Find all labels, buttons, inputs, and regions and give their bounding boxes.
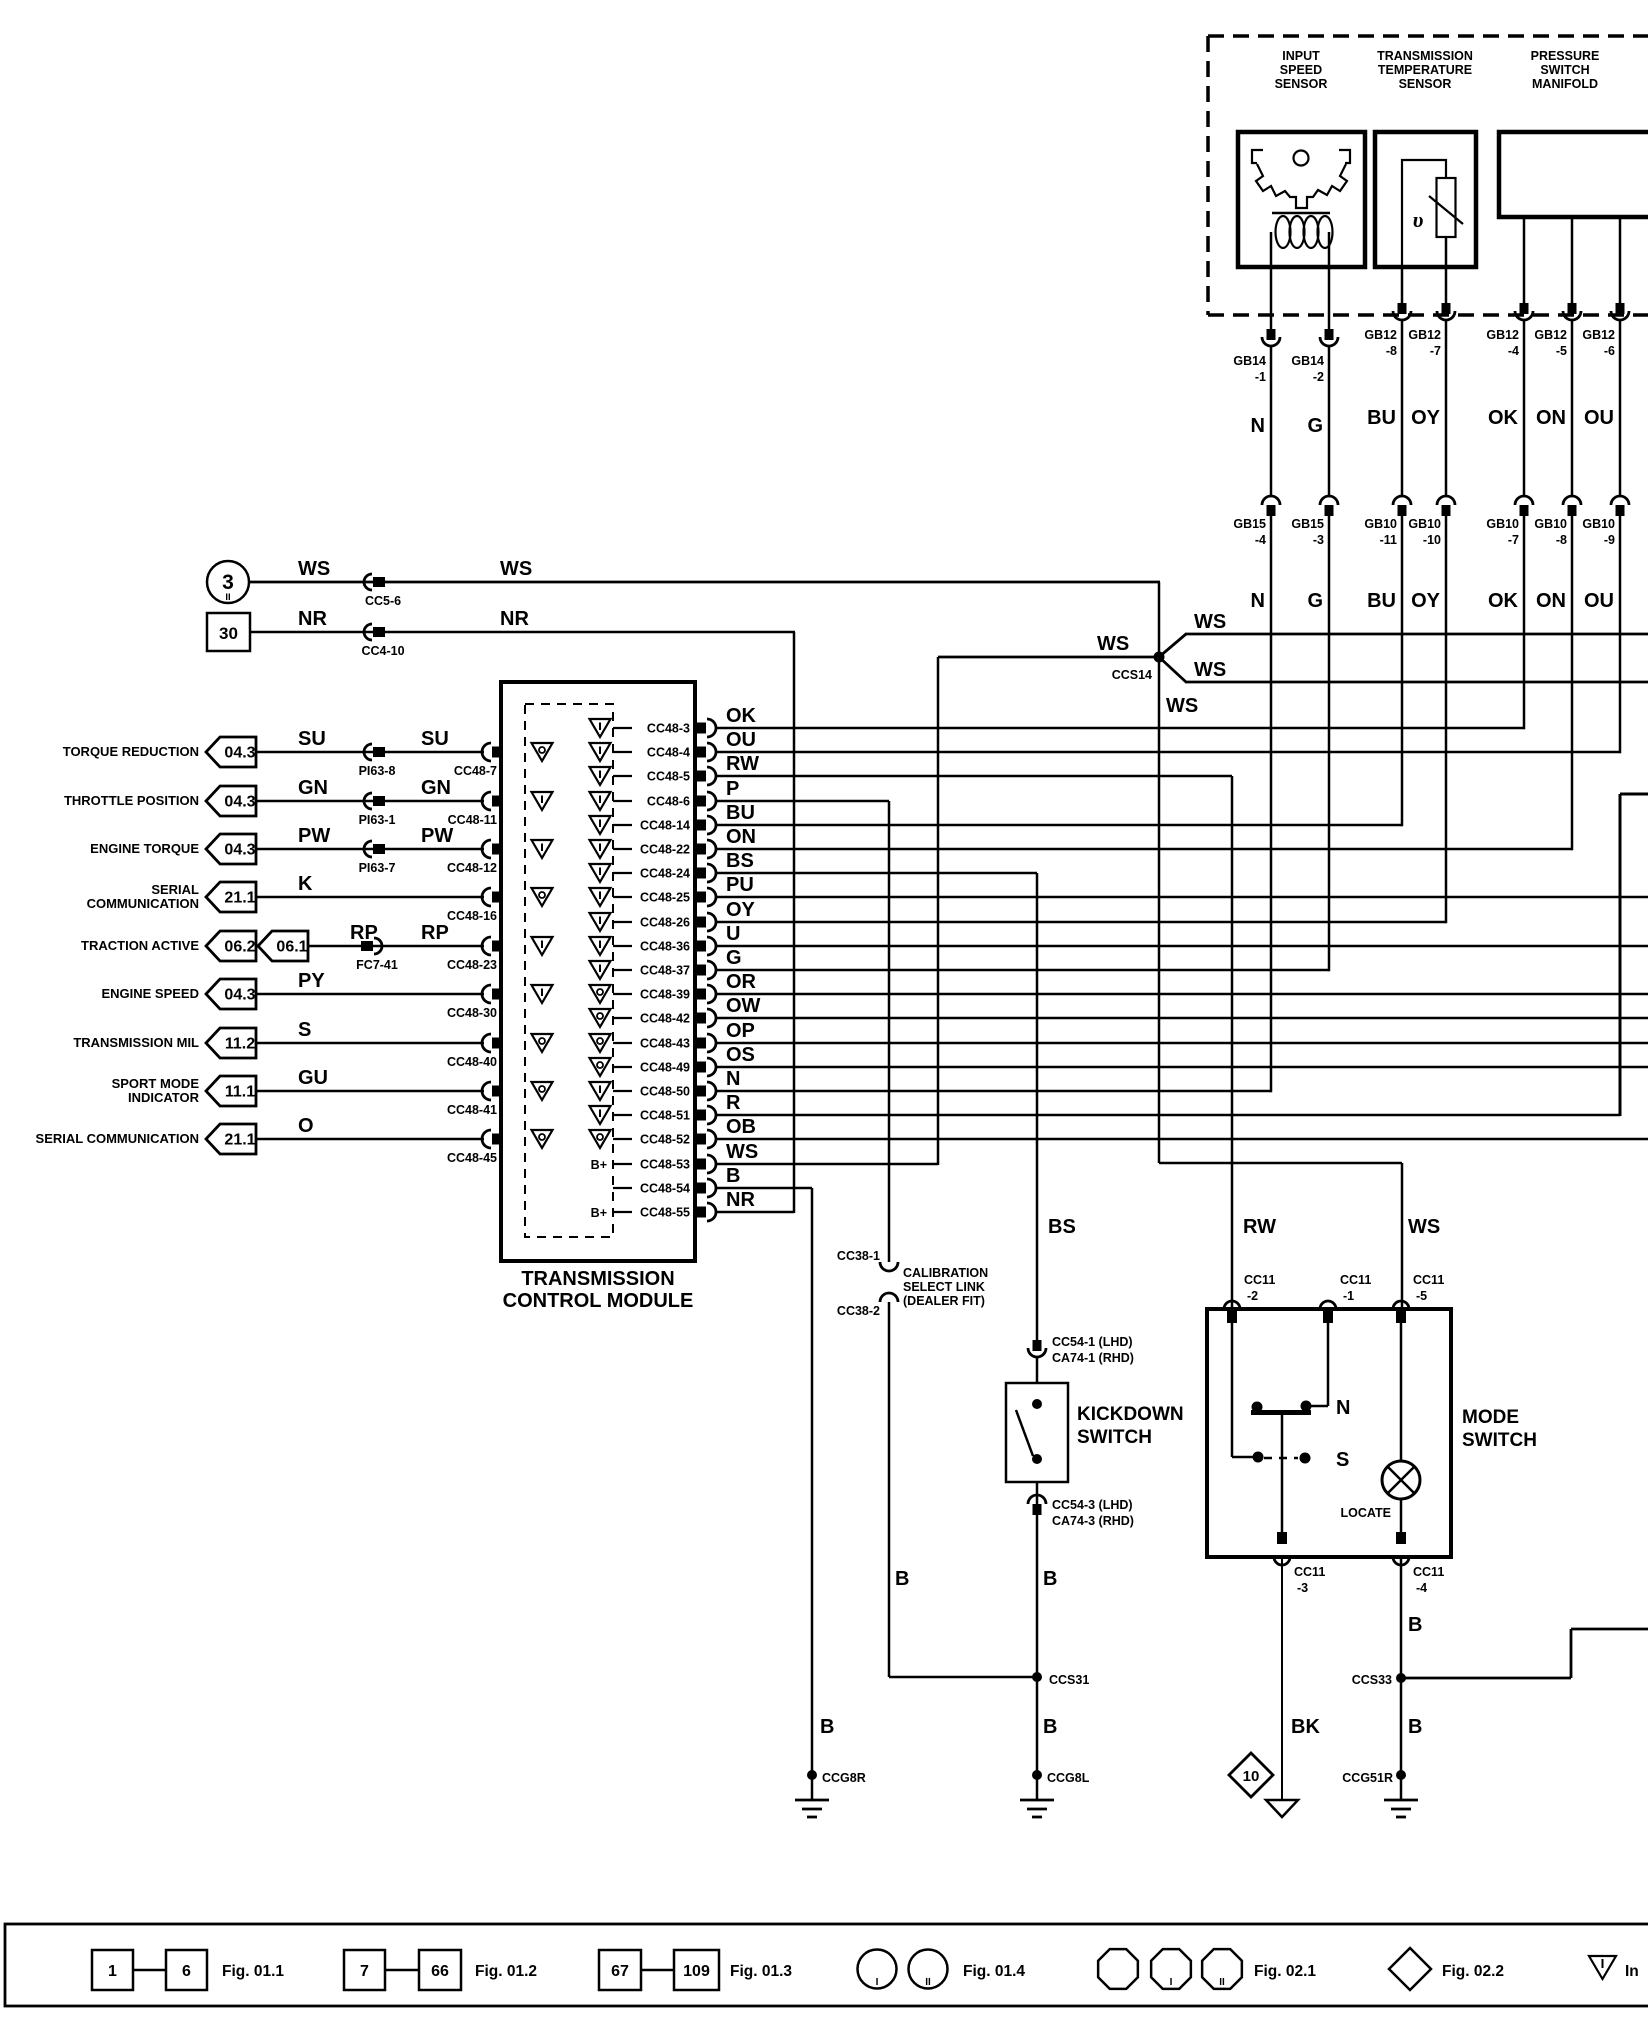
wire NR vertical to CC48-55 — [793, 632, 796, 1213]
svg-text:109: 109 — [683, 1963, 710, 1980]
pin CC48-55 wire NR — [591, 1189, 794, 1221]
mode switch — [1207, 1273, 1537, 1595]
svg-text:CC48-37: CC48-37 — [640, 964, 690, 978]
svg-text:06.1: 06.1 — [276, 939, 307, 956]
svg-text:Fig. 02.2: Fig. 02.2 — [1442, 1963, 1504, 1980]
svg-text:S: S — [1336, 1449, 1349, 1471]
svg-text:RP: RP — [421, 922, 449, 944]
svg-text:CA74-1 (RHD): CA74-1 (RHD) — [1052, 1351, 1134, 1365]
svg-text:RW: RW — [726, 753, 759, 775]
svg-text:B: B — [1043, 1568, 1057, 1590]
svg-text:GB10: GB10 — [1486, 517, 1519, 531]
svg-text:GB10: GB10 — [1408, 517, 1441, 531]
svg-text:B: B — [1408, 1614, 1422, 1636]
wire RW vertical to mode switch CC11-2 — [1232, 776, 1276, 1309]
ground CCG51R — [1342, 1770, 1418, 1817]
wire N from sensor (GB14-1/GB15-4) — [1233, 267, 1280, 1092]
svg-text:Fig. 01.1: Fig. 01.1 — [222, 1963, 284, 1980]
dashed sensor enclosure box — [1208, 36, 1648, 315]
pin CC48-54 wire B — [613, 1165, 812, 1197]
pressure switch manifold — [1499, 49, 1648, 217]
pin CC48-25 wire PU — [532, 874, 1648, 906]
wire WS riser from CC48-53 — [937, 657, 940, 1165]
svg-text:-8: -8 — [1556, 533, 1567, 547]
svg-text:-7: -7 — [1508, 533, 1519, 547]
pin CC48-6 wire P — [532, 778, 890, 810]
svg-text:CC48-43: CC48-43 — [640, 1037, 690, 1051]
pin CC48-53 wire WS — [591, 1141, 938, 1173]
svg-text:CC54-3 (LHD): CC54-3 (LHD) — [1052, 1498, 1133, 1512]
svg-text:NR: NR — [726, 1189, 755, 1211]
splice CCS33 with link to right edge — [1352, 1629, 1648, 1687]
svg-text:-2: -2 — [1247, 1289, 1258, 1303]
svg-text:BK: BK — [1291, 1716, 1320, 1738]
svg-text:-6: -6 — [1604, 344, 1615, 358]
svg-text:CC48-5: CC48-5 — [647, 770, 690, 784]
svg-text:KICKDOWN: KICKDOWN — [1077, 1404, 1184, 1425]
svg-text:CC48-25: CC48-25 — [640, 891, 690, 905]
svg-text:-10: -10 — [1423, 533, 1441, 547]
svg-text:OK: OK — [726, 705, 757, 727]
svg-text:PI63-1: PI63-1 — [359, 813, 396, 827]
legend item Fig. 02.2 — [1389, 1948, 1504, 1990]
svg-text:WS: WS — [1194, 659, 1226, 681]
pin CC48-26 wire OY — [590, 899, 1447, 931]
svg-text:RP: RP — [350, 922, 378, 944]
svg-text:I: I — [876, 1977, 879, 1988]
svg-text:K: K — [298, 873, 313, 895]
svg-text:ON: ON — [726, 826, 756, 848]
pin CC48-5 wire RW — [590, 753, 1233, 785]
svg-text:CC48-7: CC48-7 — [454, 764, 497, 778]
svg-text:CC48-16: CC48-16 — [447, 909, 497, 923]
input SERIAL COMMUNICATION (CC48-16) — [87, 873, 501, 923]
svg-text:CC11: CC11 — [1340, 1273, 1371, 1287]
svg-text:BU: BU — [1367, 407, 1396, 429]
svg-text:CC48-4: CC48-4 — [647, 746, 690, 760]
input ENGINE TORQUE (CC48-12) — [90, 825, 501, 875]
svg-text:CC48-22: CC48-22 — [640, 843, 690, 857]
svg-text:O: O — [298, 1115, 314, 1137]
svg-text:CCG8L: CCG8L — [1047, 1771, 1090, 1785]
svg-text:CC48-51: CC48-51 — [640, 1109, 690, 1123]
pin CC48-22 wire ON — [532, 826, 1573, 858]
svg-text:21.1: 21.1 — [224, 890, 255, 907]
svg-text:OU: OU — [1584, 590, 1614, 612]
svg-text:TRANSMISSION: TRANSMISSION — [521, 1268, 674, 1290]
svg-text:B: B — [1408, 1716, 1422, 1738]
svg-text:CC48-49: CC48-49 — [640, 1061, 690, 1075]
svg-text:CCG8R: CCG8R — [822, 1771, 866, 1785]
pin CC48-50 wire N — [532, 1068, 1272, 1100]
svg-text:21.1: 21.1 — [224, 1132, 255, 1149]
svg-text:CC48-42: CC48-42 — [640, 1012, 690, 1026]
svg-text:GB12: GB12 — [1582, 328, 1615, 342]
svg-text:CC48-52: CC48-52 — [640, 1133, 690, 1147]
svg-text:WS: WS — [298, 558, 330, 580]
pin CC48-39 wire OR — [532, 971, 1648, 1003]
svg-text:S: S — [298, 1019, 311, 1041]
wire BU from sensor (GB12-8/GB10-11) — [1364, 267, 1411, 826]
svg-text:COMMUNICATION: COMMUNICATION — [87, 896, 199, 911]
svg-text:B+: B+ — [591, 1206, 607, 1220]
svg-text:06.2: 06.2 — [224, 939, 255, 956]
pin CC48-36 wire U — [532, 923, 1648, 955]
svg-text:CC11: CC11 — [1413, 1565, 1444, 1579]
svg-text:PI63-7: PI63-7 — [359, 861, 396, 875]
pin CC48-24 wire BS — [590, 850, 1038, 882]
svg-text:OU: OU — [1584, 407, 1614, 429]
svg-text:OP: OP — [726, 1020, 755, 1042]
svg-text:SWITCH: SWITCH — [1462, 1430, 1537, 1451]
transmission control module U1 — [501, 682, 695, 1312]
svg-text:-8: -8 — [1386, 344, 1397, 358]
svg-text:WS: WS — [500, 558, 532, 580]
pin CC48-49 wire OS — [590, 1044, 1648, 1076]
svg-text:SU: SU — [298, 728, 326, 750]
svg-text:CCG51R: CCG51R — [1342, 1771, 1393, 1785]
svg-text:ON: ON — [1536, 407, 1566, 429]
legend item Fig. 01.1 — [92, 1950, 284, 1990]
svg-text:CC48-26: CC48-26 — [640, 916, 690, 930]
svg-text:WS: WS — [1166, 695, 1198, 717]
svg-text:CC48-55: CC48-55 — [640, 1206, 690, 1220]
svg-text:WS: WS — [726, 1141, 758, 1163]
svg-text:CC48-6: CC48-6 — [647, 795, 690, 809]
wire G from sensor (GB14-2/GB15-3) — [1291, 267, 1338, 971]
svg-text:THROTTLE POSITION: THROTTLE POSITION — [64, 793, 199, 808]
svg-text:10: 10 — [1243, 1768, 1260, 1785]
svg-text:67: 67 — [611, 1963, 629, 1980]
pin CC48-14 wire BU — [590, 802, 1403, 834]
splice CCS31 — [1032, 1672, 1089, 1738]
connector CC5-6 on WS wire — [298, 558, 532, 608]
legend item triangle reference — [1589, 1956, 1639, 1980]
svg-text:OB: OB — [726, 1116, 756, 1138]
svg-text:CC48-11: CC48-11 — [448, 813, 497, 827]
wire OK from sensor (GB12-4/GB10-7) — [1486, 217, 1533, 729]
svg-text:PW: PW — [421, 825, 453, 847]
svg-text:-5: -5 — [1416, 1289, 1427, 1303]
svg-text:3: 3 — [222, 571, 234, 594]
svg-text:GN: GN — [421, 777, 451, 799]
svg-text:CC11: CC11 — [1244, 1273, 1275, 1287]
legend item Fig. 02.1 — [1098, 1949, 1316, 1989]
svg-text:PI63-8: PI63-8 — [359, 764, 396, 778]
svg-text:SERIAL: SERIAL — [151, 882, 199, 897]
svg-text:66: 66 — [431, 1963, 449, 1980]
svg-text:PU: PU — [726, 874, 754, 896]
svg-text:OR: OR — [726, 971, 757, 993]
svg-text:CA74-3 (RHD): CA74-3 (RHD) — [1052, 1514, 1134, 1528]
input SPORT MODE INDICATOR (CC48-41) — [112, 1067, 501, 1117]
svg-text:-3: -3 — [1313, 533, 1324, 547]
svg-text:INDICATOR: INDICATOR — [128, 1090, 200, 1105]
legend item Fig. 01.3 — [599, 1950, 792, 1990]
svg-text:-5: -5 — [1556, 344, 1567, 358]
transmission temperature sensor — [1375, 49, 1476, 267]
pin CC48-52 wire OB — [532, 1116, 1648, 1148]
input speed sensor — [1238, 49, 1365, 267]
svg-text:B: B — [895, 1568, 909, 1590]
svg-text:TRANSMISSION MIL: TRANSMISSION MIL — [73, 1035, 199, 1050]
svg-text:CALIBRATION: CALIBRATION — [903, 1266, 988, 1280]
svg-text:OK: OK — [1488, 590, 1519, 612]
connector CC54-3/CA74-3 — [1028, 1482, 1134, 1776]
svg-text:CC48-24: CC48-24 — [640, 867, 690, 881]
svg-text:GB12: GB12 — [1486, 328, 1519, 342]
svg-text:OY: OY — [1411, 590, 1441, 612]
svg-text:CCS14: CCS14 — [1112, 668, 1152, 682]
svg-text:7: 7 — [360, 1963, 369, 1980]
svg-text:30: 30 — [219, 624, 238, 643]
svg-text:GU: GU — [298, 1067, 328, 1089]
wire B from mode switch CC11-4 — [1401, 1557, 1422, 1776]
svg-text:B+: B+ — [591, 1158, 607, 1172]
wire B vertical to ground CCG8R — [812, 1188, 834, 1776]
svg-text:WS: WS — [1097, 633, 1129, 655]
svg-text:GB10: GB10 — [1582, 517, 1615, 531]
svg-text:B: B — [820, 1716, 834, 1738]
svg-text:B: B — [726, 1165, 740, 1187]
input THROTTLE POSITION (CC48-11) — [64, 777, 501, 827]
svg-text:SWITCH: SWITCH — [1540, 63, 1589, 77]
svg-text:ENGINE SPEED: ENGINE SPEED — [101, 986, 199, 1001]
wire ON from sensor (GB12-5/GB10-8) — [1534, 217, 1581, 850]
svg-text:SU: SU — [421, 728, 449, 750]
svg-text:CC48-3: CC48-3 — [647, 722, 690, 736]
pin CC48-43 wire OP — [532, 1020, 1648, 1052]
svg-text:-3: -3 — [1297, 1581, 1308, 1595]
svg-text:LOCATE: LOCATE — [1341, 1506, 1391, 1520]
wire OY from sensor (GB12-7/GB10-10) — [1408, 267, 1455, 923]
svg-text:II: II — [1219, 1977, 1225, 1988]
connector CC4-10 on NR wire — [298, 608, 529, 658]
wire R bridge to right edge — [1620, 794, 1648, 1116]
svg-text:CC48-36: CC48-36 — [640, 940, 690, 954]
input TORQUE REDUCTION (CC48-7) — [63, 728, 501, 778]
svg-text:TORQUE REDUCTION: TORQUE REDUCTION — [63, 744, 199, 759]
svg-text:CC48-50: CC48-50 — [640, 1085, 690, 1099]
svg-text:CC4-10: CC4-10 — [361, 644, 404, 658]
svg-text:CC54-1 (LHD): CC54-1 (LHD) — [1052, 1335, 1133, 1349]
svg-text:PRESSURE: PRESSURE — [1531, 49, 1600, 63]
svg-text:NR: NR — [500, 608, 529, 630]
svg-text:OY: OY — [1411, 407, 1441, 429]
connector CC54-1/CA74-1 — [1028, 1335, 1134, 1383]
svg-text:G: G — [1307, 415, 1323, 437]
svg-text:OY: OY — [726, 899, 756, 921]
svg-text:N: N — [1336, 1397, 1350, 1419]
svg-text:GN: GN — [298, 777, 328, 799]
off-page reference diamond 10 — [1229, 1753, 1273, 1797]
svg-text:N: N — [1251, 415, 1265, 437]
svg-text:11.1: 11.1 — [225, 1084, 255, 1101]
svg-text:CCS33: CCS33 — [1352, 1673, 1392, 1687]
splice CCS14 (WS distribution) — [938, 582, 1648, 1309]
svg-text:-4: -4 — [1416, 1581, 1427, 1595]
svg-text:Fig. 01.4: Fig. 01.4 — [963, 1963, 1025, 1980]
svg-text:GB15: GB15 — [1291, 517, 1324, 531]
wire OU from sensor (GB12-6/GB10-9) — [1582, 217, 1629, 753]
svg-text:PY: PY — [298, 970, 325, 992]
svg-text:11.2: 11.2 — [225, 1036, 255, 1053]
svg-text:CC48-40: CC48-40 — [447, 1055, 497, 1069]
svg-text:GB12: GB12 — [1408, 328, 1441, 342]
svg-text:P: P — [726, 778, 739, 800]
pin CC48-3 wire OK — [590, 705, 1525, 737]
svg-text:GB12: GB12 — [1364, 328, 1397, 342]
svg-text:GB10: GB10 — [1364, 517, 1397, 531]
wire P vertical to calibration link — [888, 801, 891, 1262]
legend item Fig. 01.4 — [858, 1950, 1026, 1989]
svg-text:CC48-39: CC48-39 — [640, 988, 690, 1002]
svg-text:Fig. 01.2: Fig. 01.2 — [475, 1963, 537, 1980]
svg-text:SWITCH: SWITCH — [1077, 1427, 1152, 1448]
svg-text:CC48-53: CC48-53 — [640, 1158, 690, 1172]
svg-text:OK: OK — [1488, 407, 1519, 429]
svg-text:04.3: 04.3 — [224, 745, 255, 762]
svg-text:CC38-1: CC38-1 — [837, 1249, 880, 1263]
svg-text:-7: -7 — [1430, 344, 1441, 358]
svg-text:CC48-45: CC48-45 — [447, 1151, 497, 1165]
input ENGINE SPEED (CC48-30) — [101, 970, 501, 1020]
svg-text:U: U — [726, 923, 740, 945]
svg-text:1: 1 — [108, 1963, 117, 1980]
svg-text:GB14: GB14 — [1291, 354, 1324, 368]
pin CC48-37 wire G — [590, 947, 1330, 979]
svg-text:TRACTION ACTIVE: TRACTION ACTIVE — [81, 938, 199, 953]
svg-text:PW: PW — [298, 825, 330, 847]
svg-text:OU: OU — [726, 729, 756, 751]
input TRACTION ACTIVE (CC48-23) — [81, 922, 501, 972]
legend item Fig. 01.2 — [344, 1950, 537, 1990]
svg-text:ENGINE TORQUE: ENGINE TORQUE — [90, 841, 199, 856]
svg-text:CC11: CC11 — [1413, 1273, 1444, 1287]
svg-text:04.3: 04.3 — [224, 842, 255, 859]
svg-text:WS: WS — [1408, 1216, 1440, 1238]
svg-text:N: N — [726, 1068, 740, 1090]
svg-text:INPUT: INPUT — [1282, 49, 1320, 63]
svg-text:B: B — [1043, 1716, 1057, 1738]
node 30 (box) with NR feed wire — [207, 613, 795, 651]
pin CC48-4 wire OU — [532, 729, 1621, 761]
svg-text:GB10: GB10 — [1534, 517, 1567, 531]
legend bar frame — [5, 1924, 1648, 2006]
svg-text:In: In — [1625, 1963, 1639, 1980]
svg-text:-4: -4 — [1255, 533, 1266, 547]
svg-text:SPORT MODE: SPORT MODE — [112, 1076, 200, 1091]
svg-text:BU: BU — [1367, 590, 1396, 612]
svg-text:MANIFOLD: MANIFOLD — [1532, 77, 1598, 91]
svg-text:WS: WS — [1194, 611, 1226, 633]
svg-text:FC7-41: FC7-41 — [356, 958, 398, 972]
ground CCG8L — [1020, 1770, 1090, 1817]
svg-text:G: G — [1307, 590, 1323, 612]
svg-text:SPEED: SPEED — [1280, 63, 1322, 77]
svg-text:GB12: GB12 — [1534, 328, 1567, 342]
input SERIAL COMMUNICATION (CC48-45) — [36, 1115, 501, 1165]
svg-text:-2: -2 — [1313, 370, 1324, 384]
svg-text:BS: BS — [1048, 1216, 1076, 1238]
svg-text:OS: OS — [726, 1044, 755, 1066]
svg-text:CC48-41: CC48-41 — [447, 1103, 497, 1117]
svg-text:-4: -4 — [1508, 344, 1519, 358]
svg-text:GB15: GB15 — [1233, 517, 1266, 531]
svg-text:-9: -9 — [1604, 533, 1615, 547]
svg-text:II: II — [225, 592, 230, 603]
svg-text:BU: BU — [726, 802, 755, 824]
svg-text:SELECT LINK: SELECT LINK — [903, 1280, 985, 1294]
svg-text:NR: NR — [298, 608, 327, 630]
svg-text:Fig. 01.3: Fig. 01.3 — [730, 1963, 792, 1980]
svg-text:04.3: 04.3 — [224, 987, 255, 1004]
svg-text:SENSOR: SENSOR — [1275, 77, 1328, 91]
svg-text:BS: BS — [726, 850, 754, 872]
svg-text:G: G — [726, 947, 742, 969]
wire BK with arrow to off-page 10 — [1266, 1557, 1320, 1817]
svg-text:N: N — [1251, 590, 1265, 612]
svg-text:SENSOR: SENSOR — [1399, 77, 1452, 91]
input TRANSMISSION MIL (CC48-40) — [73, 1019, 501, 1069]
pin CC48-51 wire R — [590, 1092, 1621, 1124]
pin CC48-42 wire OW — [590, 995, 1648, 1027]
svg-text:SERIAL COMMUNICATION: SERIAL COMMUNICATION — [36, 1131, 199, 1146]
svg-text:-1: -1 — [1343, 1289, 1354, 1303]
kickdown switch — [1006, 1383, 1184, 1482]
svg-text:6: 6 — [182, 1963, 191, 1980]
svg-text:CC38-2: CC38-2 — [837, 1304, 880, 1318]
svg-text:R: R — [726, 1092, 741, 1114]
svg-text:TEMPERATURE: TEMPERATURE — [1378, 63, 1472, 77]
svg-text:CC5-6: CC5-6 — [365, 594, 401, 608]
svg-text:GB14: GB14 — [1233, 354, 1266, 368]
svg-text:Fig. 02.1: Fig. 02.1 — [1254, 1963, 1316, 1980]
svg-text:CC48-23: CC48-23 — [447, 958, 497, 972]
svg-text:-11: -11 — [1380, 533, 1397, 547]
svg-text:TRANSMISSION: TRANSMISSION — [1377, 49, 1473, 63]
calibration select link CC38-1/CC38-2 — [837, 1249, 1037, 1677]
svg-text:CCS31: CCS31 — [1049, 1673, 1089, 1687]
svg-text:OW: OW — [726, 995, 761, 1017]
svg-text:CC48-12: CC48-12 — [447, 861, 497, 875]
svg-text:I: I — [1170, 1977, 1173, 1988]
svg-text:CONTROL MODULE: CONTROL MODULE — [503, 1290, 694, 1312]
svg-text:II: II — [925, 1977, 931, 1988]
node 3 (circle) with WS feed wire — [207, 561, 1160, 603]
svg-text:-1: -1 — [1255, 370, 1266, 384]
svg-text:ON: ON — [1536, 590, 1566, 612]
svg-text:CC48-30: CC48-30 — [447, 1006, 497, 1020]
svg-text:MODE: MODE — [1462, 1407, 1519, 1428]
ground CCG8R — [795, 1770, 866, 1817]
wire BS vertical to kickdown switch — [1037, 873, 1076, 1341]
svg-text:04.3: 04.3 — [224, 794, 255, 811]
svg-text:RW: RW — [1243, 1216, 1276, 1238]
svg-text:CC11: CC11 — [1294, 1565, 1325, 1579]
svg-text:CC48-14: CC48-14 — [640, 819, 690, 833]
svg-text:υ: υ — [1413, 207, 1424, 232]
svg-text:(DEALER FIT): (DEALER FIT) — [903, 1294, 985, 1308]
svg-text:CC48-54: CC48-54 — [640, 1182, 690, 1196]
